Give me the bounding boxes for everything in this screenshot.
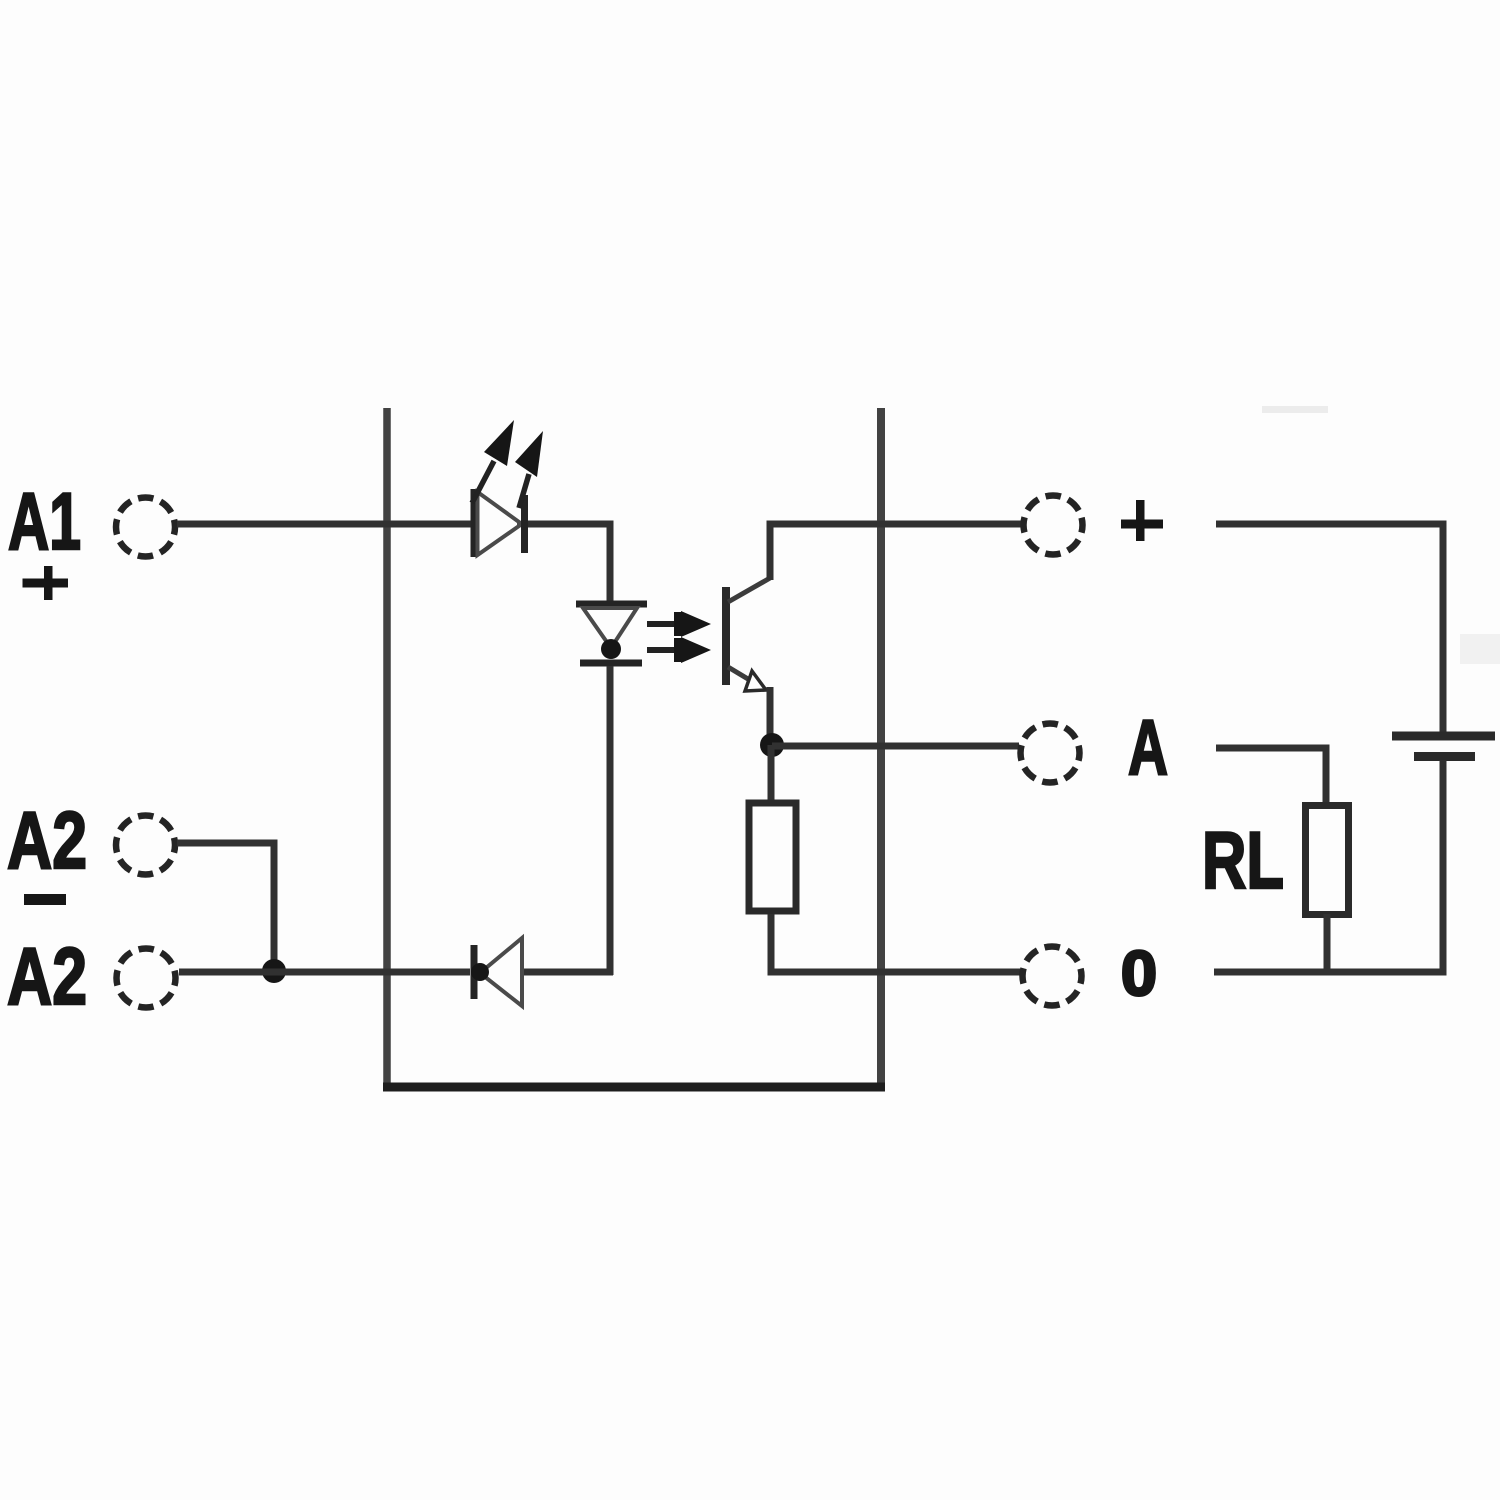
faint artifact streak top right — [1262, 406, 1328, 413]
optocoupler LED (vertical) — [576, 604, 647, 663]
svg-text:RL: RL — [1202, 816, 1284, 906]
svg-text:0: 0 — [1121, 939, 1157, 1009]
svg-text:A2: A2 — [7, 796, 87, 886]
battery cell — [1392, 736, 1495, 757]
opto light arrow lower — [647, 637, 711, 663]
isolation barrier left vertical — [383, 408, 391, 1087]
isolation barrier right vertical — [877, 408, 885, 1087]
minus sign — [24, 894, 66, 905]
svg-text:A: A — [1128, 703, 1168, 791]
terminal A1 — [116, 498, 175, 557]
label A2 upper — [7, 796, 87, 886]
resistor R (output pull-down) — [749, 803, 796, 911]
label A2 lower — [7, 932, 87, 1022]
wire emitter down to node — [767, 687, 774, 745]
external wire A to RL — [1216, 748, 1326, 806]
svg-text:A1: A1 — [8, 477, 81, 567]
phototransistor Q1 — [726, 578, 770, 691]
wire resistor to 0 terminal — [771, 914, 1021, 972]
wire node down to resistor — [768, 745, 775, 801]
terminal 0 output — [1023, 947, 1082, 1006]
junction node A2 — [262, 959, 286, 983]
terminal A output — [1021, 724, 1080, 783]
label 0 output — [1121, 939, 1157, 1009]
wire node to A terminal — [772, 743, 1019, 750]
label plus output — [1121, 500, 1163, 541]
plus sign under A1 — [23, 566, 69, 600]
external wire plus to battery — [1216, 524, 1443, 733]
junction node emitter — [760, 733, 784, 757]
LED light emission arrow 2 — [515, 431, 543, 508]
label RL — [1202, 816, 1284, 906]
wire A2 lower to diode and barrier — [179, 969, 470, 976]
opto light arrow upper — [647, 611, 711, 637]
LED light emission arrow 1 — [472, 420, 514, 503]
label A output — [1128, 703, 1168, 791]
wire RL to 0 rail — [1324, 914, 1331, 972]
wire diode to opto branch — [524, 969, 613, 976]
wire A1 to LED anode — [177, 521, 471, 528]
terminal plus output — [1024, 496, 1083, 555]
wire LED cathode to corner — [528, 524, 610, 601]
wire A2 upper to junction — [177, 843, 274, 962]
wire collector to + terminal — [770, 524, 1021, 580]
terminal A2 lower — [117, 949, 176, 1008]
protection diode D1 — [471, 938, 522, 1006]
wire battery minus down to 0 rail — [1214, 760, 1443, 972]
terminal A2 upper — [116, 816, 175, 875]
svg-text:A2: A2 — [7, 932, 87, 1022]
label A1 — [8, 477, 81, 567]
module bottom rail — [383, 1083, 885, 1092]
wire opto LED cathode down to input return — [607, 666, 614, 975]
faint artifact right edge — [1460, 634, 1500, 664]
LED indicator diode — [474, 489, 525, 557]
load resistor RL — [1306, 806, 1349, 915]
